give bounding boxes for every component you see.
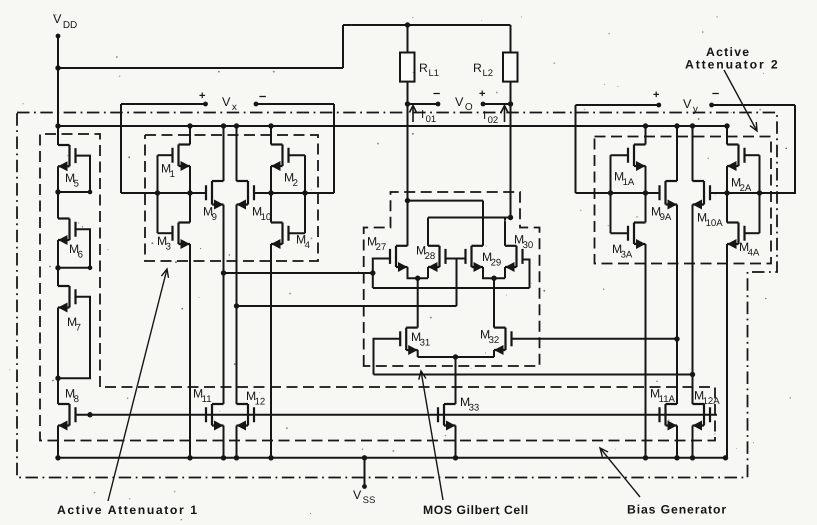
svg-text:R: R <box>419 61 428 75</box>
svg-text:SS: SS <box>363 495 376 506</box>
svg-text:V: V <box>353 488 362 502</box>
svg-text:DD: DD <box>63 20 77 31</box>
svg-text:7: 7 <box>76 323 81 334</box>
svg-text:28: 28 <box>425 251 436 262</box>
svg-text:MOS Gilbert Cell: MOS Gilbert Cell <box>423 503 529 517</box>
svg-text:Bias Generator: Bias Generator <box>627 503 727 517</box>
svg-text:11: 11 <box>202 394 212 405</box>
svg-text:11A: 11A <box>659 394 676 405</box>
svg-text:1A: 1A <box>623 177 635 188</box>
svg-text:L2: L2 <box>483 68 494 79</box>
svg-text:30: 30 <box>523 240 534 251</box>
svg-text:–: – <box>433 85 440 100</box>
svg-text:4A: 4A <box>748 248 760 259</box>
svg-text:Attenuator 2: Attenuator 2 <box>685 58 780 72</box>
svg-text:27: 27 <box>376 242 387 253</box>
svg-text:02: 02 <box>488 115 499 126</box>
svg-text:I: I <box>483 110 486 122</box>
svg-text:5: 5 <box>74 179 79 190</box>
svg-text:01: 01 <box>426 114 437 125</box>
svg-text:I: I <box>421 109 424 121</box>
svg-text:10: 10 <box>261 212 272 223</box>
svg-text:9: 9 <box>212 212 217 223</box>
svg-text:32: 32 <box>489 335 500 346</box>
svg-text:9A: 9A <box>660 212 672 223</box>
svg-text:V: V <box>455 95 464 109</box>
svg-text:–: – <box>712 85 719 100</box>
svg-text:10A: 10A <box>706 218 724 229</box>
svg-text:4: 4 <box>305 240 311 251</box>
svg-text:y: y <box>693 104 698 115</box>
svg-text:2A: 2A <box>740 183 752 194</box>
svg-text:29: 29 <box>491 258 502 269</box>
svg-text:33: 33 <box>469 403 480 414</box>
svg-text:3A: 3A <box>621 250 633 261</box>
svg-text:+: + <box>199 90 205 102</box>
svg-text:V: V <box>222 95 231 109</box>
svg-text:L1: L1 <box>429 68 440 79</box>
svg-text:1: 1 <box>170 169 175 180</box>
svg-text:2: 2 <box>293 178 298 189</box>
svg-text:R: R <box>473 61 482 75</box>
svg-text:–: – <box>259 88 266 103</box>
svg-text:+: + <box>479 88 485 100</box>
svg-text:V: V <box>683 97 692 111</box>
svg-text:3: 3 <box>166 242 171 253</box>
svg-text:O: O <box>465 102 473 113</box>
svg-text:8: 8 <box>74 394 79 405</box>
svg-text:Active Attenuator 1: Active Attenuator 1 <box>57 503 199 517</box>
svg-text:12: 12 <box>255 397 266 408</box>
svg-text:6: 6 <box>78 250 83 261</box>
svg-text:31: 31 <box>420 338 431 349</box>
svg-text:x: x <box>232 102 237 113</box>
svg-text:+: + <box>653 89 659 101</box>
svg-text:12A: 12A <box>703 396 721 407</box>
svg-text:V: V <box>53 12 62 26</box>
